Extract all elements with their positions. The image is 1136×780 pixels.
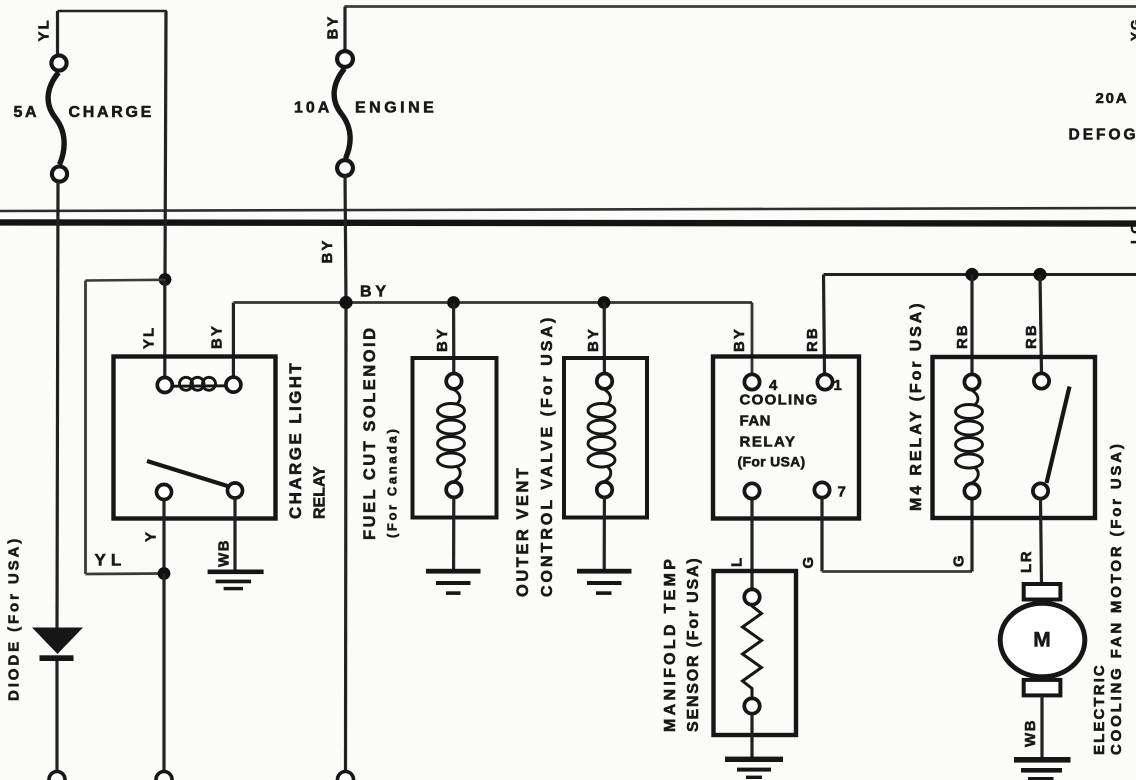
wire left loop vertical (84, 281, 87, 575)
connector bottom middle-left (156, 772, 172, 780)
svg-text:M: M (1033, 629, 1051, 652)
svg-text:WB: WB (216, 539, 233, 567)
ground below manifold temp sensor (725, 757, 783, 779)
relay K1 coil right terminal (226, 377, 241, 392)
wire RB down to M4 switch (1040, 275, 1042, 375)
svg-text:L: L (729, 556, 746, 567)
svg-text:5A: 5A (14, 104, 40, 121)
svg-text:20A: 20A (1096, 90, 1129, 107)
node RB dot at M4 coil (965, 268, 978, 281)
wire bottom left pin down to manifold temp sensor (750, 499, 753, 591)
node RB dot at M4 switch (1033, 268, 1046, 281)
svg-text:Y: Y (143, 530, 160, 542)
svg-text:RB: RB (1023, 323, 1040, 349)
svg-text:RELAY: RELAY (312, 466, 329, 519)
svg-text:CHARGE: CHARGE (69, 104, 155, 121)
svg-text:RB: RB (804, 326, 821, 352)
ground below motor (1014, 757, 1071, 780)
fuse F1 5A CHARGE (48, 55, 67, 181)
svg-text:BY: BY (585, 327, 602, 352)
relay K1 coil winding (174, 377, 226, 390)
wire engine BY below fuse down to BY node (345, 175, 346, 303)
svg-text:COOLING: COOLING (740, 392, 819, 409)
wire valve to ground (603, 497, 606, 569)
svg-text:(For Canada): (For Canada) (385, 427, 400, 538)
node junction dot bottom left (158, 567, 171, 580)
svg-text:DEFOGGE: DEFOGGE (1069, 127, 1136, 144)
svg-text:RELAY: RELAY (740, 434, 797, 451)
connector bottom left (49, 772, 65, 780)
power bus thick line (0, 222, 1136, 223)
wire diode to bottom connector (55, 661, 58, 772)
wire BY rail turns down into cooling fan relay pin 4 (751, 303, 754, 375)
relay K1 switch arm (147, 461, 228, 486)
svg-text:DIODE (For USA): DIODE (For USA) (6, 536, 23, 701)
relay K3 switch top terminal (1034, 373, 1049, 388)
valve L2 top terminal (597, 374, 612, 389)
valve L2 winding (588, 390, 615, 482)
svg-text:G: G (800, 555, 817, 568)
relay K3 coil bottom terminal (964, 483, 979, 498)
svg-text:10A: 10A (294, 100, 332, 117)
relay K1 switch right terminal (228, 483, 243, 498)
wire BY from top to fuse F2 (343, 7, 346, 51)
wire left loop horizontal top (86, 278, 166, 281)
wire solenoid to ground (452, 497, 455, 569)
wire sensor to ground (750, 714, 753, 757)
valve L2 OUTER VENT CONTROL VALVE box (564, 358, 647, 518)
svg-text:ENGINE: ENGINE (355, 100, 437, 117)
wire left loop horizontal bottom (86, 572, 165, 575)
wire from fuse F1 down through bus to diode (57, 182, 58, 630)
svg-text:BY: BY (360, 284, 390, 301)
wire engine down to bottom connector (344, 303, 348, 773)
wire pin 1 up to RB rail (824, 275, 825, 375)
svg-text:CHARGE LIGHT: CHARGE LIGHT (286, 361, 305, 519)
relay K2 bottom left terminal (744, 483, 759, 498)
svg-text:OUTER VENT: OUTER VENT (514, 466, 532, 597)
relay K3 coil winding (956, 390, 983, 483)
relay K1 CHARGE LIGHT RELAY box (114, 357, 276, 519)
svg-text:SENSOR (For USA): SENSOR (For USA) (685, 557, 702, 732)
svg-text:YG: YG (1129, 17, 1136, 41)
sensor R1 top terminal (744, 589, 759, 604)
solenoid L1 top terminal (446, 374, 461, 389)
valve L2 bottom terminal (597, 482, 612, 497)
svg-text:1: 1 (834, 377, 842, 394)
wire relay coil right pin up to BY rail (232, 303, 235, 377)
svg-text:FAN: FAN (740, 413, 772, 430)
connector bottom engine wire (338, 772, 354, 780)
relay K3 switch arm (1047, 387, 1070, 484)
svg-text:YL: YL (141, 326, 158, 349)
wire down to bottom connector (162, 574, 165, 773)
relay K2 COOLING FAN RELAY box (713, 357, 859, 519)
svg-text:COOLING FAN MOTOR (For USA): COOLING FAN MOTOR (For USA) (1108, 441, 1125, 755)
node BY dot at fuel cut solenoid (447, 296, 460, 309)
svg-text:RB: RB (954, 323, 971, 349)
node BY junction dot on engine wire (339, 296, 352, 309)
svg-text:CONTROL VALVE (For USA): CONTROL VALVE (For USA) (539, 315, 556, 597)
wire top-right horizontal (345, 5, 1136, 8)
svg-text:BY: BY (434, 327, 451, 352)
wire M4 coil bottom down to G rail (970, 500, 973, 572)
svg-text:BY: BY (731, 327, 748, 352)
wire top-left horizontal (58, 10, 167, 13)
ground below WB (208, 570, 264, 591)
relay K2 pin 4 terminal (744, 374, 759, 389)
sensor R1 resistor zigzag (743, 605, 762, 699)
svg-text:WB: WB (1022, 719, 1039, 747)
svg-text:YL: YL (95, 551, 127, 570)
svg-text:BY: BY (209, 324, 226, 349)
sensor R1 bottom terminal (744, 698, 759, 713)
svg-text:LR: LR (1018, 550, 1035, 573)
svg-text:YL: YL (36, 18, 53, 41)
wire RB down to M4 coil (970, 275, 973, 376)
relay K2 pin 7 terminal (814, 482, 829, 497)
wire BY down to fuel cut solenoid (452, 303, 455, 375)
diode D1 (For USA) (32, 628, 83, 662)
relay K3 M4 RELAY box (933, 357, 1096, 518)
sensor R1 MANIFOLD TEMP SENSOR box (714, 571, 797, 735)
relay K1 switch left terminal (157, 485, 172, 500)
svg-text:G: G (951, 554, 968, 567)
svg-text:BY: BY (325, 15, 342, 40)
solenoid L1 winding (438, 390, 465, 482)
relay K1 coil left terminal (157, 378, 172, 393)
wire BY down to outer vent valve (603, 303, 606, 375)
wire M4 switch down to motor (1041, 499, 1042, 586)
motor M1 bottom terminal (1024, 680, 1061, 696)
wire BY rail horizontal (233, 301, 752, 304)
wire x=165 from top down to junction (165, 11, 166, 280)
wire pin 7 down to G rail (820, 498, 823, 572)
motor M1 body (1000, 603, 1085, 677)
svg-text:ELECTRIC: ELECTRIC (1091, 663, 1108, 755)
ground below outer vent valve (577, 569, 632, 595)
relay K3 switch bottom terminal (1033, 483, 1048, 498)
power bus thin line (0, 208, 1136, 211)
solenoid L1 bottom terminal (446, 482, 461, 497)
svg-text:M4 RELAY (For USA): M4 RELAY (For USA) (908, 301, 925, 511)
wire RB rail horizontal (824, 273, 1136, 276)
wire switch right pin down to ground (233, 498, 236, 570)
svg-text:FUEL CUT SOLENOID: FUEL CUT SOLENOID (361, 325, 379, 540)
wire motor to ground (1040, 695, 1043, 757)
node BY dot at outer vent valve (598, 296, 611, 309)
motor M1 top terminal (1024, 584, 1061, 600)
fuse F2 10A ENGINE (334, 51, 353, 176)
wire G rail horizontal (822, 570, 972, 573)
solenoid L1 FUEL CUT SOLENOID box (413, 358, 497, 518)
wire junction down to relay coil (163, 280, 166, 378)
relay K2 pin 1 terminal (817, 374, 832, 389)
svg-text:MANIFOLD TEMP: MANIFOLD TEMP (662, 556, 679, 732)
svg-text:BY: BY (319, 239, 336, 264)
wire switch left pin down to node (162, 500, 165, 574)
relay K3 coil top terminal (964, 374, 979, 389)
wire YL from top to fuse (56, 11, 59, 54)
svg-text:(For USA): (For USA) (738, 454, 806, 470)
svg-text:7: 7 (838, 484, 846, 501)
node junction dot at (165,279) (159, 273, 172, 286)
svg-text:LO: LO (1129, 221, 1136, 244)
ground below fuel cut solenoid (426, 569, 481, 595)
